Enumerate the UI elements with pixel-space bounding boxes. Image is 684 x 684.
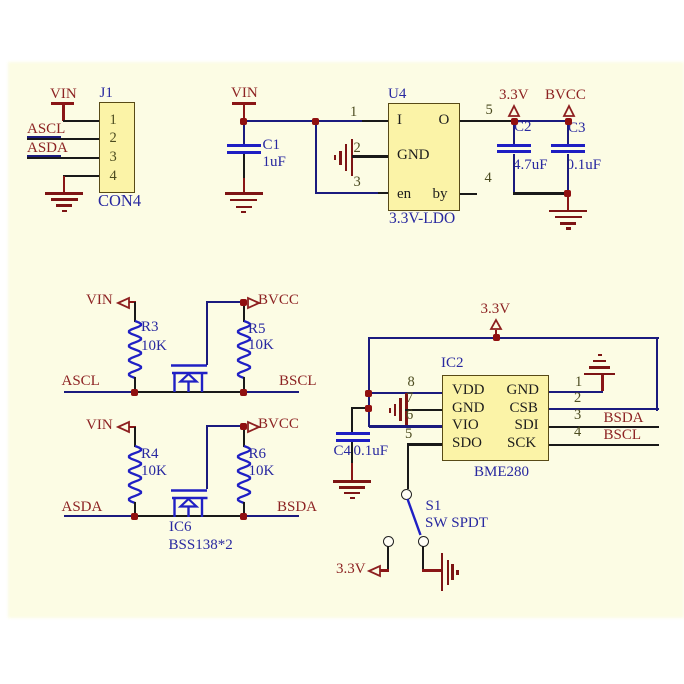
wire C4 branch horizontal: [351, 407, 369, 409]
value 10K R6: [249, 464, 275, 479]
designator J1: [100, 86, 113, 101]
junction BVCC upper: [240, 299, 247, 306]
wire R5 bottom stub: [243, 377, 245, 392]
resistor R4: [127, 446, 143, 503]
IC2 pin number 4: [574, 425, 581, 440]
wire C2 top lead: [513, 121, 515, 144]
net label BSCL (IC2): [604, 428, 642, 443]
wire IC2 pin1: [549, 391, 603, 393]
wire U4 pin5 to C2: [460, 120, 514, 122]
power VIN at C1: [225, 86, 265, 122]
net label ASCL (shifter): [62, 374, 100, 389]
U4 pin name I: [397, 113, 402, 128]
mosfet Q upper (IC6a): [168, 363, 210, 393]
J1 pin 1: [110, 113, 117, 128]
wire C1 top lead: [243, 121, 245, 145]
label R5: [248, 322, 266, 337]
wire en branch horizontal: [315, 192, 379, 194]
ground at C4: [333, 480, 371, 500]
wire ASDA segment: [64, 515, 135, 517]
value 10K R3: [141, 339, 167, 354]
U4 pin name by: [433, 187, 448, 202]
wire IC2 pin7: [405, 409, 442, 411]
designator IC2: [441, 356, 464, 371]
power 3.3V at C2: [499, 88, 539, 122]
IC2 pin name SCK: [507, 436, 536, 451]
net label ASDA: [27, 141, 68, 156]
part label SW SPDT: [425, 516, 488, 531]
junction 3.3V top rail: [493, 334, 500, 341]
wire C1 bottom lead: [243, 154, 245, 179]
wire C3 bottom lead: [567, 154, 569, 194]
wire U4 pin3 stub: [378, 192, 388, 194]
U4 pin name en: [397, 187, 411, 202]
IC2 pin name SDI: [515, 418, 539, 433]
junction at C1: [240, 118, 247, 125]
rotated ground at U4 pin2: [334, 139, 354, 176]
wire R6 top stub: [243, 427, 245, 447]
junction VDD: [365, 390, 372, 397]
label R3: [141, 320, 159, 335]
wire VIN to U4 pin1: [243, 120, 363, 122]
part label BME280: [474, 465, 529, 480]
wire VIN to R3: [134, 302, 136, 322]
wire U4 pin4 stub: [460, 193, 477, 195]
IC2 pin name VDD: [452, 383, 485, 398]
wire C1 ground stem: [243, 178, 245, 193]
IC2 pin name GND left: [452, 401, 485, 416]
power BVCC lower: [247, 417, 303, 433]
label R6: [249, 447, 267, 462]
U4 pin number 3: [354, 175, 361, 190]
junction ASCL R3: [131, 389, 138, 396]
U4 pin number 5: [486, 103, 493, 118]
U4 pin number 4: [485, 171, 492, 186]
label C1: [263, 138, 281, 153]
wire C4 ground stem: [351, 463, 353, 481]
value 0.1uF: [567, 158, 602, 173]
junction BSCL R5: [240, 389, 247, 396]
wire R6 bottom stub: [243, 502, 245, 517]
wire R4 bottom stub: [134, 502, 136, 517]
wire IC2 pin2: [549, 408, 659, 410]
power 3.3V at S1: [336, 562, 382, 580]
value 4.7uF: [513, 158, 548, 173]
wire ASCL to BSCL middle: [135, 391, 245, 393]
IC2 pin number 8: [408, 375, 415, 390]
resistor R6: [236, 446, 252, 503]
wire BSDA segment: [244, 515, 299, 517]
wire J1 pin3: [27, 157, 100, 159]
IC2 pin name SDO: [452, 436, 482, 451]
power VIN at J1: [44, 87, 84, 122]
U4 pin number 1: [350, 105, 357, 120]
J1 pin 4: [110, 169, 117, 184]
U4 pin number 2: [354, 141, 361, 156]
wire ASDA to BSDA middle: [135, 515, 245, 517]
IC2 pin name CSB: [510, 401, 538, 416]
inverted ground at IC2 pin1: [584, 353, 616, 376]
wire lower mosfet to BVCC vertical: [206, 425, 208, 489]
wire C4 bottom lead: [351, 442, 353, 465]
power BVCC at C3: [545, 88, 591, 122]
label C2: [514, 120, 532, 135]
regulator U4 box: [388, 103, 460, 211]
IC2 pin number 6: [406, 408, 413, 423]
mosfet Q lower (IC6b): [168, 488, 210, 518]
wire R5 top stub: [243, 302, 245, 322]
IC2 pin number 3: [574, 408, 581, 423]
wire SDO vertical: [407, 443, 409, 489]
label C3: [568, 121, 586, 136]
IC2 pin name VIO: [452, 418, 479, 433]
capacitor C1: [227, 144, 261, 154]
wire right rail vertical: [656, 337, 658, 411]
switch S1 throw A terminal: [383, 536, 394, 547]
wire IC2 pin4: [549, 444, 659, 446]
wire pin1 ground stem: [601, 374, 603, 391]
net label BSDA (IC2): [604, 411, 644, 426]
U4 pin name O: [439, 113, 450, 128]
connector J1 box: [99, 102, 135, 193]
power VIN at R3: [86, 293, 136, 311]
designator S1: [426, 499, 442, 514]
ground at C1: [225, 192, 263, 214]
net label BSDA: [277, 500, 317, 515]
rotated ground at S1 throw B: [441, 553, 461, 591]
wire top rail IC2: [368, 337, 659, 339]
switch S1 throw B terminal: [418, 536, 429, 547]
wire C3 top lead: [567, 121, 569, 144]
designator U4: [388, 87, 406, 102]
resistor R5: [236, 321, 252, 378]
wire ASCL segment: [64, 391, 135, 393]
switch S1 common terminal: [401, 489, 412, 500]
wire C2 to C3: [514, 120, 568, 122]
resistor R3: [127, 321, 143, 378]
net label ASDA: [62, 500, 103, 515]
wire lower mosfet to BVCC horizontal: [206, 425, 244, 427]
wire C2 bottom lead: [513, 154, 515, 194]
capacitor C4: [336, 432, 370, 442]
wire R3 bottom stub: [134, 377, 136, 392]
IC2 pin number 1: [575, 375, 582, 390]
wire upper mosfet to BVCC vertical: [206, 301, 208, 365]
wire throw B down: [422, 546, 424, 570]
wire ground stem C2C3: [567, 196, 569, 210]
IC2 pin name GND right: [507, 383, 540, 398]
J1 pin 2: [110, 131, 117, 146]
label R4: [141, 447, 159, 462]
part label BSS138*2: [169, 538, 233, 553]
J1 pin 3: [110, 150, 117, 165]
part label 3.3V-LDO: [389, 211, 455, 227]
ground at C2C3: [549, 210, 587, 232]
wire upper mosfet to BVCC horizontal: [206, 301, 244, 303]
part label CON4: [98, 193, 141, 210]
rotated ground at IC2 pin7: [389, 393, 409, 428]
IC2 pin number 2: [574, 391, 581, 406]
wire BSCL segment: [244, 391, 299, 393]
wire throw A to 3.3V: [380, 569, 389, 571]
wire ASCL (blue stub): [27, 136, 61, 138]
wire C2 to C3 bottom rail: [513, 192, 568, 194]
value 1uF: [263, 155, 286, 170]
wire J1 pin2: [27, 138, 100, 140]
wire ASDA (blue stub): [27, 155, 61, 157]
wire VIN to R4: [134, 427, 136, 447]
wire U4 pin2: [352, 155, 388, 157]
junction C4 branch: [365, 405, 372, 412]
wire en branch vertical: [315, 121, 317, 194]
junction at en branch: [312, 118, 319, 125]
value 10K R5: [248, 338, 274, 353]
wire IC2 pin3: [549, 426, 659, 428]
junction at C3: [565, 118, 572, 125]
net label BSCL: [279, 374, 317, 389]
junction at ground rail: [564, 190, 571, 197]
capacitor C2: [497, 144, 531, 154]
wire throw A down: [387, 546, 389, 570]
junction ASDA R4: [131, 513, 138, 520]
wire C4 branch vertical: [351, 407, 353, 432]
wire J1 pin1: [63, 120, 100, 122]
sensor IC2 box: [442, 375, 549, 462]
switch S1 lever: [405, 498, 423, 538]
U4 pin name GND: [397, 148, 430, 163]
wire IC2 pin6: [369, 425, 443, 427]
wire IC2 pin8: [369, 392, 443, 394]
label C4 and value 0.1uF: [334, 444, 352, 459]
power VIN at R4: [86, 418, 136, 436]
wire J1 pin4 stem: [63, 176, 65, 193]
junction BSDA R6: [240, 513, 247, 520]
power 3.3V at IC2: [481, 302, 521, 338]
wire IC2 pin5: [407, 443, 443, 445]
wire throw B to ground: [422, 569, 441, 571]
IC2 pin number 5: [405, 427, 412, 442]
designator IC6: [169, 520, 192, 535]
net label ASCL: [27, 122, 65, 137]
junction BVCC lower: [240, 423, 247, 430]
junction at C2: [511, 118, 518, 125]
capacitor C3: [551, 144, 585, 154]
IC2 pin number 7: [406, 391, 413, 406]
value 10K R4: [141, 464, 167, 479]
wire left rail vertical: [368, 337, 370, 427]
wire U4 pin1 stub: [362, 120, 388, 122]
wire J1 pin4: [63, 175, 99, 177]
power BVCC upper: [247, 293, 303, 309]
ground at J1 pin4: [45, 192, 83, 212]
